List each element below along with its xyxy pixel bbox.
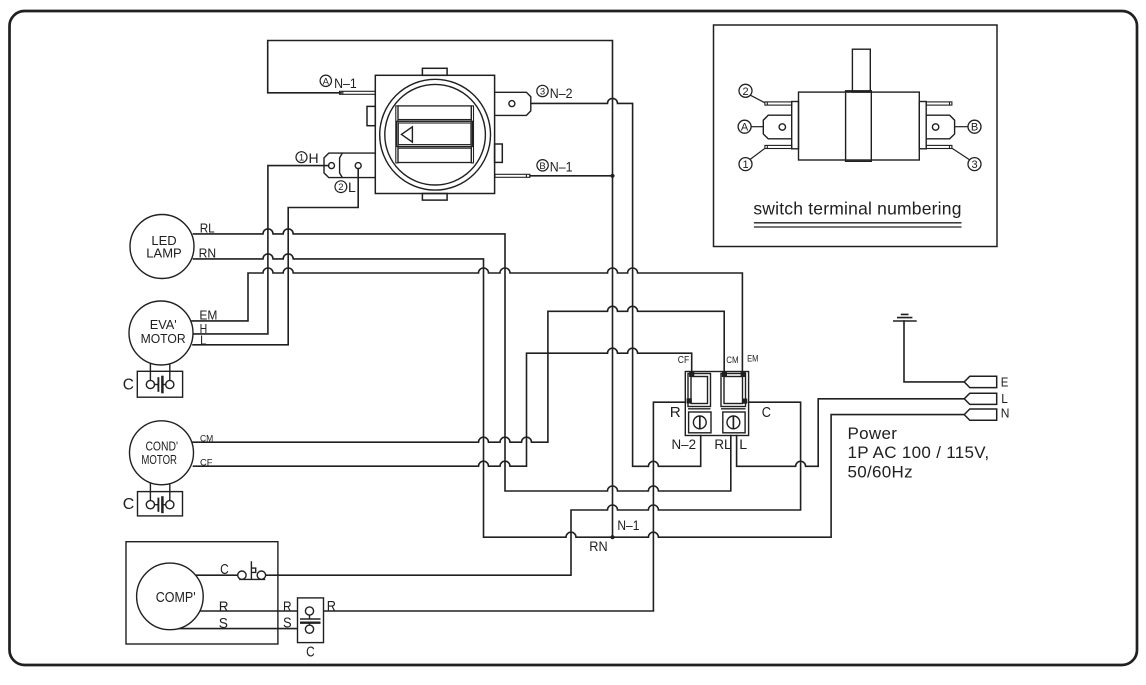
inset terminal A tab: [763, 115, 791, 139]
wire E ground to power E connector: [904, 321, 964, 382]
switch cam plates: [396, 106, 398, 163]
svg-text:S: S: [219, 615, 228, 632]
svg-text:L: L: [348, 179, 356, 195]
overload protector switch: [238, 561, 266, 579]
wire RN neutral bus from LED lamp to power N connector: [194, 254, 965, 537]
svg-text:EM: EM: [199, 307, 217, 322]
relay screw terminal RL/L: [723, 412, 745, 433]
wire C compressor segment: [195, 574, 237, 576]
svg-text:A: A: [741, 122, 749, 134]
svg-text:E: E: [1001, 375, 1009, 390]
capacitor C of COND motor: [138, 483, 183, 516]
svg-text:CF: CF: [200, 457, 213, 467]
inset switch body: [792, 49, 927, 161]
svg-text:2: 2: [338, 182, 343, 193]
wire CF from COND motor to relay CF terminal: [194, 348, 692, 466]
wire B N-1 from switch terminal B to junction: [530, 175, 613, 177]
svg-text:1: 1: [742, 159, 748, 171]
svg-text:3: 3: [540, 87, 545, 98]
svg-text:2: 2: [742, 86, 748, 98]
label A N-1 (switch): [320, 75, 357, 91]
svg-text:A: A: [323, 76, 330, 87]
svg-text:50/60Hz: 50/60Hz: [848, 463, 913, 482]
wire A N-1 loop from switch terminal A around top, down right side to neutral bus: [268, 41, 613, 538]
switch terminal B tab: [495, 174, 530, 177]
svg-text:C: C: [220, 561, 229, 578]
svg-text:COMP': COMP': [156, 589, 196, 606]
svg-text:C: C: [306, 644, 315, 661]
svg-text:S: S: [283, 615, 292, 632]
inset terminal top-right tab: [926, 102, 952, 105]
svg-text:RN: RN: [589, 539, 607, 554]
inset label B: [955, 120, 981, 134]
svg-text:1P AC 100 / 115V,: 1P AC 100 / 115V,: [848, 443, 990, 462]
svg-text:C: C: [123, 376, 134, 393]
relay / PTC starter block: [685, 372, 748, 436]
svg-text:CF: CF: [678, 355, 689, 366]
power connector N: [964, 409, 997, 420]
node junction dot B N-1: [610, 174, 614, 178]
inset label 3: [952, 148, 981, 171]
svg-text:CM: CM: [200, 433, 213, 443]
inset label A: [738, 120, 763, 134]
svg-text:R: R: [219, 599, 229, 616]
capacitor C of compressor: [298, 598, 324, 643]
power connector E: [964, 376, 997, 387]
svg-text:N–2: N–2: [550, 85, 573, 101]
svg-text:1: 1: [299, 153, 304, 164]
svg-text:RL: RL: [714, 436, 731, 452]
inset label 1: [739, 148, 765, 171]
EVA motor: [129, 301, 193, 365]
power connector L: [964, 393, 997, 404]
inset label 2: [739, 84, 765, 103]
wire L from relay L terminal to power L connector: [737, 399, 965, 467]
svg-text:CM: CM: [726, 355, 738, 366]
wire L from switch terminal 2 to EVA motor: [193, 169, 358, 345]
wire RL from LED lamp to relay RL terminal: [194, 229, 731, 491]
relay right coil: [721, 374, 746, 407]
svg-text:L: L: [1001, 391, 1008, 406]
svg-text:RN: RN: [199, 246, 217, 261]
svg-text:B: B: [971, 122, 978, 134]
ground symbol: [894, 314, 916, 321]
svg-text:RL: RL: [200, 220, 215, 235]
svg-text:N–1: N–1: [334, 75, 357, 91]
relay terminal pads: [687, 372, 748, 404]
svg-text:Power: Power: [848, 424, 898, 443]
wire H from switch terminal 1 to EVA motor: [193, 166, 329, 334]
wire CM from COND motor to relay CM terminal: [193, 306, 724, 442]
svg-text:R: R: [670, 405, 681, 421]
label 3 N-2 (switch): [537, 85, 573, 101]
svg-text:LAMP: LAMP: [146, 246, 181, 261]
svg-text:3: 3: [971, 159, 977, 171]
wire EM from EVA motor to relay EM terminal: [192, 268, 742, 372]
svg-text:N–1: N–1: [617, 518, 639, 533]
wire C from relay C terminal to compressor overload: [266, 402, 801, 575]
svg-text:L: L: [739, 436, 747, 452]
svg-text:R: R: [327, 598, 336, 615]
COND motor: [130, 421, 194, 485]
wire R from relay R terminal to compressor R: [200, 402, 685, 611]
svg-text:H: H: [309, 150, 319, 166]
compressor COMP' box: [126, 542, 278, 644]
svg-text:C: C: [123, 496, 135, 513]
svg-text:MOTOR: MOTOR: [141, 331, 186, 346]
inset terminal 1 tab: [765, 145, 792, 148]
wire N-2 from switch terminal 3 to relay N-2 terminal: [531, 98, 701, 466]
switch terminal 1/2 block: [324, 153, 375, 178]
label 1 H (switch): [296, 150, 319, 166]
svg-text:N–1: N–1: [550, 158, 573, 174]
inset terminal 3 tab: [926, 145, 952, 148]
relay left coil: [688, 374, 711, 407]
switch terminal 3 tab: [495, 92, 531, 115]
switch terminal A tab: [340, 91, 376, 94]
inset terminal B tab: [926, 115, 954, 139]
capacitor C of EVA motor: [137, 363, 182, 397]
svg-text:EM: EM: [747, 353, 758, 364]
switch pointer triangle: [401, 127, 412, 142]
inset terminal 2 tab: [765, 102, 792, 105]
svg-text:MOTOR: MOTOR: [141, 452, 177, 467]
svg-text:N–2: N–2: [672, 436, 697, 452]
relay screw terminal N-2: [689, 412, 711, 433]
label 2 L (switch): [335, 179, 356, 195]
svg-text:N: N: [1001, 406, 1010, 421]
svg-text:switch terminal numbering: switch terminal numbering: [753, 199, 961, 219]
node junction dot N-1/RN bus: [610, 535, 614, 539]
svg-text:B: B: [539, 161, 545, 172]
svg-text:C: C: [762, 405, 771, 421]
LED lamp: [130, 215, 194, 279]
label Power rating: [848, 424, 990, 482]
wire S from compressor to capacitor: [178, 628, 305, 630]
label B N-1 (switch): [537, 158, 573, 174]
rotary switch body: [367, 68, 502, 200]
svg-text:L: L: [200, 334, 206, 348]
svg-text:R: R: [283, 598, 292, 615]
inset: switch terminal numbering box: [714, 25, 998, 247]
